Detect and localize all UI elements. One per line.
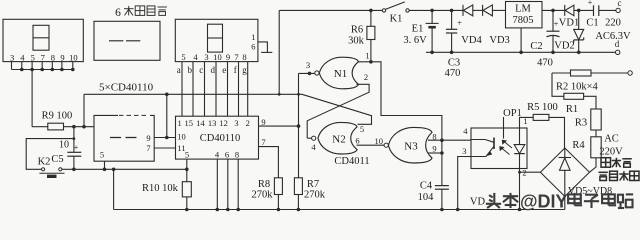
switch K1 lever bbox=[386, 2, 405, 9]
svg-text:5×CD40110: 5×CD40110 bbox=[99, 81, 154, 93]
svg-text:10: 10 bbox=[69, 52, 78, 62]
wire CD40110 pin9 right bbox=[259, 125, 299, 127]
top supply rail right bbox=[409, 9, 463, 11]
OP1 LED top wire bbox=[519, 128, 521, 145]
OP1 pin1 wire bbox=[520, 117, 534, 128]
resistor R9 body bbox=[48, 123, 64, 130]
wire C4 to ground rail bbox=[441, 189, 443, 209]
capacitor C3 plates bbox=[446, 28, 457, 30]
svg-text:220V: 220V bbox=[599, 146, 623, 157]
pushbutton K2 contacts bbox=[42, 168, 45, 171]
svg-text:7805: 7805 bbox=[513, 15, 534, 26]
svg-text:R3: R3 bbox=[575, 117, 587, 128]
bridge rectifier diamond bbox=[540, 148, 589, 196]
display DS1 (digit 1) box bbox=[3, 19, 83, 61]
wire N3 pin9 stub bbox=[428, 152, 442, 154]
wires from DS1 pins to bus bbox=[11, 62, 13, 70]
battery E1 top wire bbox=[431, 10, 433, 23]
svg-text:C1: C1 bbox=[586, 17, 598, 28]
NAND gate N1 body bbox=[319, 57, 358, 89]
switch K1 contacts bbox=[382, 9, 385, 12]
terminal circle R2 input bbox=[628, 71, 632, 75]
wire R9 to counter box bbox=[64, 126, 95, 128]
wire counter pin9 to CD40110 pin10 bbox=[154, 137, 175, 139]
counter ellipsis box (4xCD40110) bbox=[94, 115, 154, 161]
svg-text:10: 10 bbox=[177, 131, 186, 141]
diode VD1 bbox=[564, 5, 566, 16]
svg-text:N3: N3 bbox=[404, 141, 418, 153]
resistor R9 wire left bbox=[32, 126, 48, 128]
svg-text:LM: LM bbox=[515, 4, 531, 15]
svg-text:C2: C2 bbox=[530, 41, 542, 52]
ellipsis dashes on pin9 net bbox=[110, 137, 121, 139]
wire R7 / N1 output column bbox=[298, 73, 300, 177]
svg-text:+: + bbox=[74, 142, 79, 152]
svg-text:6: 6 bbox=[225, 149, 229, 159]
svg-text:K2: K2 bbox=[38, 157, 51, 168]
svg-text:14: 14 bbox=[196, 118, 205, 128]
capacitor C5 plates bbox=[67, 151, 81, 153]
svg-text:a: a bbox=[177, 65, 181, 75]
label magnetic switch (ci kai guan) bbox=[601, 158, 611, 168]
svg-text:8: 8 bbox=[242, 52, 246, 62]
wire latch output to N3 input net bbox=[371, 62, 442, 128]
svg-text:9: 9 bbox=[432, 144, 436, 154]
resistor R5 body bbox=[533, 114, 549, 120]
wire N1 output (pin3) left and down bbox=[299, 72, 315, 74]
capacitor C5 bottom wire bbox=[73, 156, 75, 169]
wire R6 to N1 pin1 bbox=[370, 40, 372, 62]
svg-text:1: 1 bbox=[177, 118, 181, 128]
wire 7805 ground pin bbox=[520, 28, 522, 52]
OP1 light arrow 2 bbox=[501, 147, 510, 154]
capacitor C2 plates bbox=[547, 30, 560, 32]
wires CD40110 pins 4 6 8 to ground rail bbox=[216, 159, 218, 209]
svg-text:b: b bbox=[188, 65, 193, 75]
svg-text:C4: C4 bbox=[420, 181, 433, 192]
svg-text:VD: VD bbox=[470, 197, 486, 208]
svg-text:5: 5 bbox=[100, 149, 104, 159]
svg-text:7: 7 bbox=[41, 52, 45, 62]
wire R8 to ground rail bbox=[277, 195, 279, 210]
wire N3 pin8 / OP1 pin4 net bbox=[428, 139, 471, 141]
regulator U7 LM7805 box bbox=[506, 2, 543, 28]
wire N1 pin1 stub bbox=[356, 61, 371, 63]
svg-text:3. 6V: 3. 6V bbox=[403, 35, 427, 46]
display DS1 seven-segment symbol bbox=[33, 25, 49, 50]
wire N3 output pin10 to N2 pin6 bbox=[357, 144, 385, 146]
svg-text:C3: C3 bbox=[448, 57, 460, 68]
display DS6 box bbox=[175, 19, 258, 61]
NAND gate N2 body bbox=[318, 122, 357, 154]
svg-text:12: 12 bbox=[219, 118, 228, 128]
svg-text:c: c bbox=[199, 65, 203, 75]
svg-text:d: d bbox=[615, 39, 620, 49]
wire 7805 output bbox=[542, 9, 565, 11]
resistor R6 body bbox=[367, 26, 375, 39]
svg-text:K1: K1 bbox=[390, 14, 403, 25]
NAND gate N3 body bbox=[388, 127, 432, 163]
capacitor C4 plates bbox=[435, 185, 449, 187]
wire carry chain top (R9 node up and across to latch) bbox=[84, 93, 302, 95]
svg-text:3: 3 bbox=[10, 52, 14, 62]
svg-text:c: c bbox=[618, 0, 622, 8]
svg-text:1: 1 bbox=[523, 116, 527, 126]
svg-text:7: 7 bbox=[146, 143, 150, 153]
wire CD40110 pin7 to R8 bbox=[259, 147, 279, 178]
svg-text:AC: AC bbox=[604, 133, 619, 144]
wire R10 to ground rail bbox=[186, 197, 188, 210]
svg-text:g: g bbox=[242, 65, 247, 75]
optocoupler OP1 box bbox=[471, 128, 527, 169]
svg-text:6: 6 bbox=[355, 136, 359, 146]
svg-text:E1: E1 bbox=[412, 24, 424, 35]
OP1 collector wire bbox=[471, 140, 494, 143]
battery E1 plates bbox=[426, 22, 439, 24]
svg-text:270k: 270k bbox=[304, 190, 326, 201]
svg-text:AC6.3V: AC6.3V bbox=[595, 31, 631, 42]
DS1 pin bus wire bbox=[12, 69, 73, 71]
OP1 LED body bbox=[514, 145, 525, 154]
terminal d circle bbox=[616, 50, 620, 54]
svg-text:R8: R8 bbox=[258, 179, 270, 190]
svg-text:6: 6 bbox=[115, 7, 121, 19]
svg-text:R4: R4 bbox=[572, 140, 585, 151]
svg-text:5: 5 bbox=[360, 124, 364, 134]
svg-text:3: 3 bbox=[306, 60, 310, 70]
latch cross wire B (N2 out to N1 in pin2) bbox=[307, 84, 369, 138]
svg-text:9: 9 bbox=[261, 117, 265, 127]
svg-text:@DIY: @DIY bbox=[520, 192, 568, 212]
svg-text:9: 9 bbox=[146, 133, 150, 143]
svg-text:R6: R6 bbox=[351, 24, 363, 35]
pushbutton K2 button block bbox=[47, 175, 57, 178]
resistor R6 wire top bbox=[370, 10, 372, 26]
svg-text:VD3: VD3 bbox=[489, 35, 509, 46]
segment wires DS6 to CD40110 (a-g) bbox=[181, 62, 183, 117]
svg-text:2: 2 bbox=[364, 72, 368, 82]
wire counter pin7 to CD40110 pin11 bbox=[154, 147, 175, 149]
svg-text:VD1: VD1 bbox=[559, 17, 579, 28]
wire ground stub down to bottom rail bbox=[113, 169, 115, 209]
wire main left vertical (supply to carry line) bbox=[278, 10, 280, 94]
svg-text:8: 8 bbox=[51, 52, 55, 62]
wire bridge bottom to ground rail bbox=[564, 196, 566, 209]
wire OP1 pin3 to ground bbox=[458, 157, 471, 210]
zener VD2 top wire bbox=[578, 10, 580, 29]
svg-text:R1: R1 bbox=[566, 104, 578, 115]
svg-text:10: 10 bbox=[59, 139, 69, 150]
svg-text:2: 2 bbox=[246, 118, 250, 128]
wire R5 to bridge top bbox=[549, 117, 565, 148]
OP1 light arrow 1 bbox=[503, 141, 512, 148]
IC U6 CD40110 box bbox=[176, 116, 259, 159]
display ellipsis box (DS2..DS5) bbox=[94, 21, 160, 60]
diode VD3 bbox=[482, 5, 484, 16]
wire N2 bubble stub bbox=[307, 137, 311, 139]
pushbutton K2 bar bbox=[39, 172, 64, 174]
wire VD4 to VD3 bbox=[473, 9, 483, 11]
svg-text:7: 7 bbox=[234, 52, 238, 62]
svg-text:VD4: VD4 bbox=[461, 35, 482, 46]
N1 output bubble bbox=[315, 71, 319, 75]
svg-text:R10 10k: R10 10k bbox=[142, 183, 179, 194]
svg-text:104: 104 bbox=[418, 192, 435, 203]
svg-text:5: 5 bbox=[185, 149, 189, 159]
svg-text:R2 10k×4: R2 10k×4 bbox=[556, 82, 599, 93]
svg-text:C5: C5 bbox=[51, 154, 63, 165]
wire carry chain down to pin10 net bbox=[166, 94, 168, 137]
svg-text:9: 9 bbox=[226, 52, 230, 62]
svg-text:30k: 30k bbox=[348, 36, 365, 47]
svg-text:R7: R7 bbox=[307, 179, 319, 190]
svg-text:e: e bbox=[222, 65, 226, 75]
battery E1 bottom wire bbox=[431, 27, 433, 52]
OP1 label leader line bbox=[503, 117, 505, 139]
svg-text:1: 1 bbox=[251, 32, 255, 42]
OP1 emitter wire bbox=[471, 146, 494, 156]
terminal c circle bbox=[616, 8, 620, 12]
display DS6 seven-segment symbol bbox=[208, 24, 223, 52]
wire counter pin5 to ground stub bbox=[104, 161, 106, 169]
svg-text:+: + bbox=[457, 18, 462, 28]
bridge inner diode bbox=[559, 157, 572, 159]
resistor R2 body bbox=[571, 70, 592, 76]
svg-text:9: 9 bbox=[60, 52, 64, 62]
wire bus to R9 bbox=[31, 70, 33, 127]
svg-text:VD2: VD2 bbox=[554, 41, 574, 52]
capacitor C3 bottom wire bbox=[451, 33, 453, 52]
resistor R2 right wire bbox=[591, 72, 628, 74]
watermark toutiao @DIY dianzi dianlu bbox=[489, 195, 493, 197]
resistor R3 body bbox=[591, 109, 601, 130]
OP1 emitter arrowhead bbox=[487, 152, 492, 156]
wire R2 node down to R1 bbox=[552, 73, 564, 96]
svg-text:N1: N1 bbox=[334, 68, 347, 80]
OP1 phototransistor bar bbox=[493, 138, 495, 150]
svg-text:5: 5 bbox=[181, 52, 185, 62]
wire R3 to R4 bbox=[595, 130, 597, 137]
svg-text:220: 220 bbox=[605, 17, 621, 28]
svg-text:+: + bbox=[588, 0, 593, 7]
wire K2 left loop bbox=[26, 139, 74, 170]
svg-text:N2: N2 bbox=[332, 133, 345, 145]
wire R1 to R3 bbox=[584, 96, 596, 109]
svg-text:CD4011: CD4011 bbox=[334, 156, 369, 167]
svg-text:f: f bbox=[234, 65, 237, 75]
svg-text:8: 8 bbox=[235, 149, 239, 159]
label signal input (xin hao shu ru) bbox=[599, 171, 608, 173]
wire VD3 to regulator bbox=[492, 9, 505, 11]
resistor R4 body bbox=[591, 137, 601, 158]
power ground rail bbox=[426, 51, 616, 53]
wire N3 input net down to C4 bbox=[441, 128, 443, 186]
top supply rail left bbox=[279, 9, 382, 11]
svg-text:470: 470 bbox=[537, 57, 553, 68]
svg-text:3: 3 bbox=[462, 146, 466, 156]
capacitor C5 top wire bbox=[73, 127, 75, 153]
OP1 LED bottom wire bbox=[519, 154, 521, 169]
ellipsis dashes inside box bbox=[109, 40, 123, 42]
latch cross wire A (N1 out to N2 in pin5) bbox=[302, 94, 372, 124]
svg-text:5: 5 bbox=[31, 52, 35, 62]
svg-text:3: 3 bbox=[204, 52, 208, 62]
N2 output bubble bbox=[312, 136, 316, 140]
wire bridge left corner to OP1 pin2 bbox=[520, 171, 541, 173]
svg-text:3: 3 bbox=[234, 118, 238, 128]
wire OP1 pin2 to ground rail bbox=[519, 169, 521, 210]
svg-text:1: 1 bbox=[365, 50, 369, 60]
svg-text:d: d bbox=[211, 65, 216, 75]
svg-text:4: 4 bbox=[463, 126, 468, 136]
svg-text:4: 4 bbox=[20, 52, 25, 62]
capacitor C1 plates bbox=[593, 5, 595, 16]
wire VD1 to C1 bbox=[574, 9, 594, 11]
resistor R10 body bbox=[182, 182, 191, 197]
diode VD4 bbox=[462, 5, 464, 16]
svg-text:13: 13 bbox=[208, 118, 217, 128]
zener VD2 bottom wire bbox=[578, 40, 580, 52]
resistor R1 body bbox=[564, 93, 584, 99]
svg-text:CD40110: CD40110 bbox=[200, 133, 240, 144]
N3 output bubble bbox=[384, 143, 388, 147]
svg-text:470: 470 bbox=[445, 68, 461, 79]
svg-text:270k: 270k bbox=[252, 190, 274, 201]
bottom ground rail bbox=[114, 209, 565, 211]
svg-text:R9 100: R9 100 bbox=[42, 111, 73, 122]
resistor R7 body bbox=[294, 178, 302, 195]
wire R4 to bridge bbox=[590, 158, 597, 172]
wire R7 to ground rail bbox=[297, 195, 299, 210]
DS6 pins 1,6 hook wire bbox=[258, 42, 268, 53]
wire CD40110 pin5 down bbox=[186, 159, 188, 182]
resistor R8 body bbox=[274, 178, 282, 195]
capacitor C3 top wire bbox=[451, 10, 453, 29]
svg-text:7: 7 bbox=[261, 137, 265, 147]
svg-text:R5 100: R5 100 bbox=[527, 102, 558, 113]
svg-text:10: 10 bbox=[213, 52, 222, 62]
resistor R2 left wire bbox=[552, 72, 571, 74]
capacitor C2 top wire bbox=[552, 10, 554, 31]
capacitor C2 bottom wire bbox=[552, 36, 554, 52]
wire C1 to terminal c bbox=[599, 9, 616, 11]
ground stub wire (K2/C5/pin5 net) bbox=[62, 168, 187, 170]
zener VD2 body bbox=[574, 29, 584, 40]
svg-text:15: 15 bbox=[184, 118, 193, 128]
svg-text:6: 6 bbox=[251, 42, 255, 52]
